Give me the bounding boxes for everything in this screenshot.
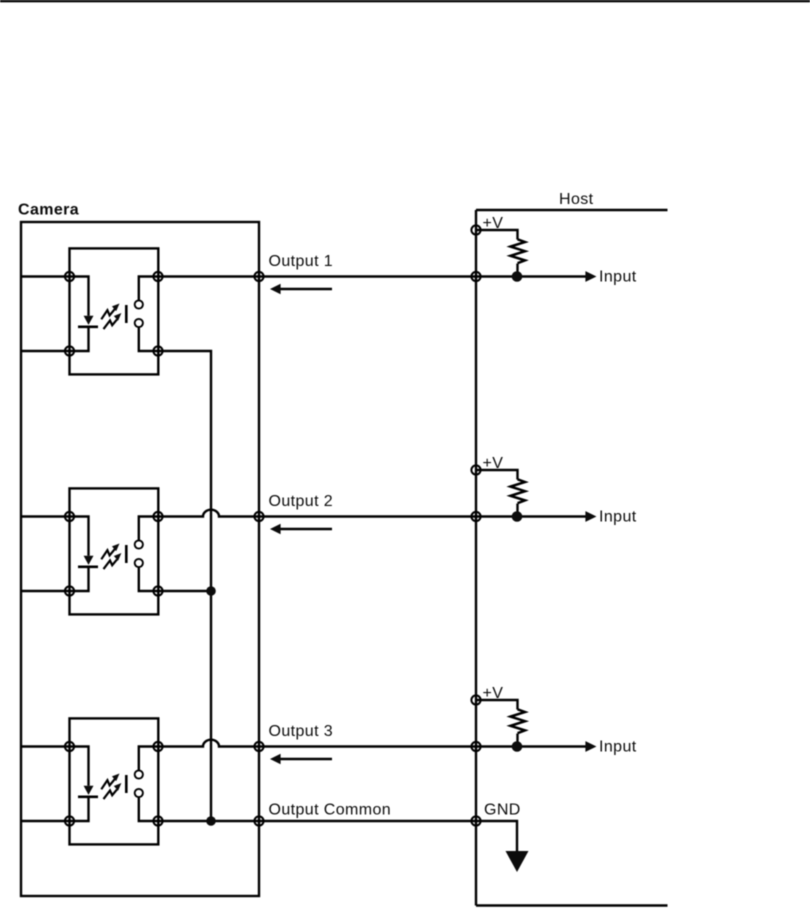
pin terminal top-left [65, 512, 74, 521]
LED D1 [84, 316, 94, 325]
photodetector bar [125, 305, 128, 323]
junction dot bus at common [206, 816, 216, 826]
wire Output 3 net [158, 740, 587, 747]
optocoupler 3 [21, 718, 163, 844]
pin terminal top-right [153, 512, 162, 521]
wire cathode [21, 567, 89, 591]
wire Output 1 net [158, 275, 587, 277]
arrow input 2 [585, 511, 596, 522]
wire contact bottom [139, 567, 158, 591]
wire cathode [21, 797, 89, 821]
junction dot input 1 [512, 271, 523, 282]
host bottom edge [476, 904, 668, 906]
pin terminal camera output common [254, 816, 263, 825]
wire GND stub [476, 821, 517, 852]
pin terminal bottom-right [153, 586, 162, 595]
pullup network input 1 [471, 215, 636, 286]
light arrow a [101, 779, 115, 790]
LED D2 [84, 556, 94, 565]
pin terminal host input 2 [471, 512, 480, 521]
svg-text:Input: Input [599, 739, 637, 756]
pin terminal top-left [65, 272, 74, 281]
wire anode [21, 747, 89, 786]
wire +V to resistor [476, 700, 518, 710]
wire resistor to input line [516, 264, 518, 277]
wire Output Common net [158, 820, 476, 822]
svg-text:Input: Input [599, 269, 637, 286]
pin terminal bottom-left [65, 346, 74, 355]
svg-text:Output 2: Output 2 [269, 493, 334, 510]
svg-text:GND: GND [484, 802, 521, 819]
wire resistor to input line [516, 734, 518, 747]
photodetector bar [125, 775, 128, 793]
junction dot input 3 [512, 741, 523, 752]
pin terminal camera output 2 [254, 512, 263, 521]
optocoupler 3 body [70, 718, 159, 844]
optocoupler 2 [21, 488, 163, 614]
light arrow b [104, 789, 118, 799]
wire cathode 2 to bus [158, 590, 211, 592]
wire cathode [21, 327, 89, 351]
pin terminal bottom-right [153, 816, 162, 825]
page top rule [0, 0, 810, 2]
wire contact top [139, 747, 158, 771]
pin terminal host GND [471, 816, 480, 825]
wire contact top [139, 277, 158, 301]
arrow input 1 [585, 271, 596, 282]
svg-text:Camera: Camera [18, 202, 79, 219]
wire output common bus vertical [158, 351, 211, 821]
wire contact bottom [139, 797, 158, 821]
contact a [135, 540, 143, 548]
host left edge [475, 210, 477, 906]
camera enclosure box [21, 222, 259, 896]
svg-text:Output 3: Output 3 [269, 723, 334, 740]
host top edge [476, 209, 668, 211]
pullup network input 2 [471, 455, 636, 526]
ground symbol [506, 851, 529, 872]
svg-text:Host: Host [559, 191, 594, 208]
pin terminal +V [471, 465, 480, 474]
pin terminal top-right [153, 272, 162, 281]
contact b [135, 789, 143, 797]
optocoupler 2 body [70, 488, 159, 614]
wire contact bottom [139, 327, 158, 351]
light arrow b [104, 319, 118, 329]
pin terminal +V [471, 225, 480, 234]
LED D3 [84, 786, 94, 795]
pin terminal host input 3 [471, 742, 480, 751]
pin terminal top-right [153, 742, 162, 751]
wire +V to resistor [476, 230, 518, 240]
wire +V to resistor [476, 470, 518, 480]
contact a [135, 770, 143, 778]
junction dot bus at output 2 [206, 586, 216, 596]
pin terminal camera output 3 [254, 742, 263, 751]
resistor R2 pull-up [511, 479, 526, 503]
pin terminal bottom-left [65, 816, 74, 825]
svg-text:Output Common: Output Common [269, 802, 392, 819]
wire anode [21, 517, 89, 556]
junction dot input 2 [512, 511, 523, 522]
wire resistor to input line [516, 504, 518, 517]
light arrow a [101, 309, 115, 320]
resistor R3 pull-up [511, 709, 526, 733]
contact a [135, 300, 143, 308]
wire anode [21, 277, 89, 316]
arrow input 3 [585, 741, 596, 752]
pullup network input 3 [471, 685, 636, 756]
pin terminal +V [471, 695, 480, 704]
svg-text:Output 1: Output 1 [269, 253, 334, 270]
arrow direction output 3 [279, 758, 333, 761]
pin terminal host input 1 [471, 272, 480, 281]
light arrow b [104, 559, 118, 569]
wire contact top [139, 517, 158, 541]
pin terminal bottom-left [65, 586, 74, 595]
photodetector bar [125, 545, 128, 563]
svg-text:Input: Input [599, 509, 637, 526]
contact b [135, 559, 143, 567]
wire Output 2 net [158, 510, 587, 517]
optocoupler 1 [21, 248, 163, 374]
arrow direction output 2 [279, 528, 333, 531]
contact b [135, 319, 143, 327]
pin terminal camera output 1 [254, 272, 263, 281]
pin terminal top-left [65, 742, 74, 751]
arrow direction output 1 [279, 288, 333, 291]
pin terminal bottom-right [153, 346, 162, 355]
optocoupler 1 body [70, 248, 159, 374]
resistor R1 pull-up [511, 239, 526, 263]
light arrow a [101, 549, 115, 560]
